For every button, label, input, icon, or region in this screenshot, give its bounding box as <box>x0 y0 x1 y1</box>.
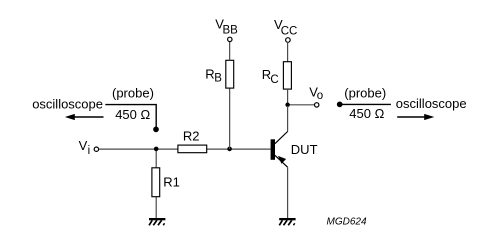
wire: RB up to VBB terminal <box>229 42 231 61</box>
svg-text:(probe): (probe) <box>344 86 386 101</box>
Vo terminal circle <box>315 103 319 107</box>
svg-text:450 Ω: 450 Ω <box>115 107 150 122</box>
right ground <box>279 218 295 225</box>
left probe fraction bar and drop wire <box>105 105 156 128</box>
wire: collector node to Vo terminal <box>288 104 315 106</box>
svg-text:CC: CC <box>281 25 298 37</box>
VBB terminal circle <box>228 37 232 41</box>
wire: input junction down to R1 and ground <box>155 149 157 218</box>
svg-text:MGD624: MGD624 <box>327 216 367 227</box>
left probe tip dot <box>153 127 159 133</box>
svg-text:C: C <box>270 74 278 86</box>
VBB label <box>215 17 238 37</box>
transistor DUT collector line <box>287 106 289 132</box>
wire: RC down to collector node <box>287 89 289 105</box>
Vi label <box>79 138 91 157</box>
svg-text:R1: R1 <box>163 174 180 189</box>
left ground <box>149 218 165 225</box>
transistor DUT emitter arrowhead <box>278 156 286 164</box>
wire: base junction up to RB <box>229 88 231 149</box>
svg-text:i: i <box>88 145 91 157</box>
wire: VCC to RC <box>287 42 289 62</box>
resistor R1 <box>152 168 160 197</box>
VCC label <box>274 17 297 37</box>
transistor DUT base bar <box>271 139 275 160</box>
resistor RC <box>283 62 291 89</box>
Vo label <box>309 84 323 102</box>
svg-text:oscilloscope: oscilloscope <box>396 96 467 111</box>
node: input junction dot <box>154 147 159 152</box>
left arrow to oscilloscope <box>65 114 104 120</box>
wire: Vi to transistor base <box>99 148 271 150</box>
resistor R2 <box>178 145 207 153</box>
right arrow to oscilloscope <box>397 114 434 120</box>
RB label <box>205 67 222 85</box>
svg-text:oscilloscope: oscilloscope <box>32 96 103 111</box>
node: collector junction dot <box>285 103 290 108</box>
svg-text:BB: BB <box>223 25 239 37</box>
transistor DUT emitter line <box>275 155 288 167</box>
svg-text:V: V <box>79 138 88 153</box>
svg-text:DUT: DUT <box>291 142 318 157</box>
svg-text:(probe): (probe) <box>112 85 154 100</box>
VCC terminal circle <box>286 38 291 43</box>
svg-text:450 Ω: 450 Ω <box>349 106 384 121</box>
svg-text:R2: R2 <box>183 129 200 144</box>
svg-text:B: B <box>214 73 222 85</box>
svg-text:R: R <box>205 67 214 82</box>
svg-text:o: o <box>317 90 323 102</box>
node: base junction dot <box>227 147 232 152</box>
resistor RB <box>226 60 234 88</box>
right probe fraction bar <box>340 103 391 105</box>
right probe tip dot <box>337 102 343 108</box>
Vi terminal circle <box>94 147 98 151</box>
RC label <box>262 67 279 86</box>
